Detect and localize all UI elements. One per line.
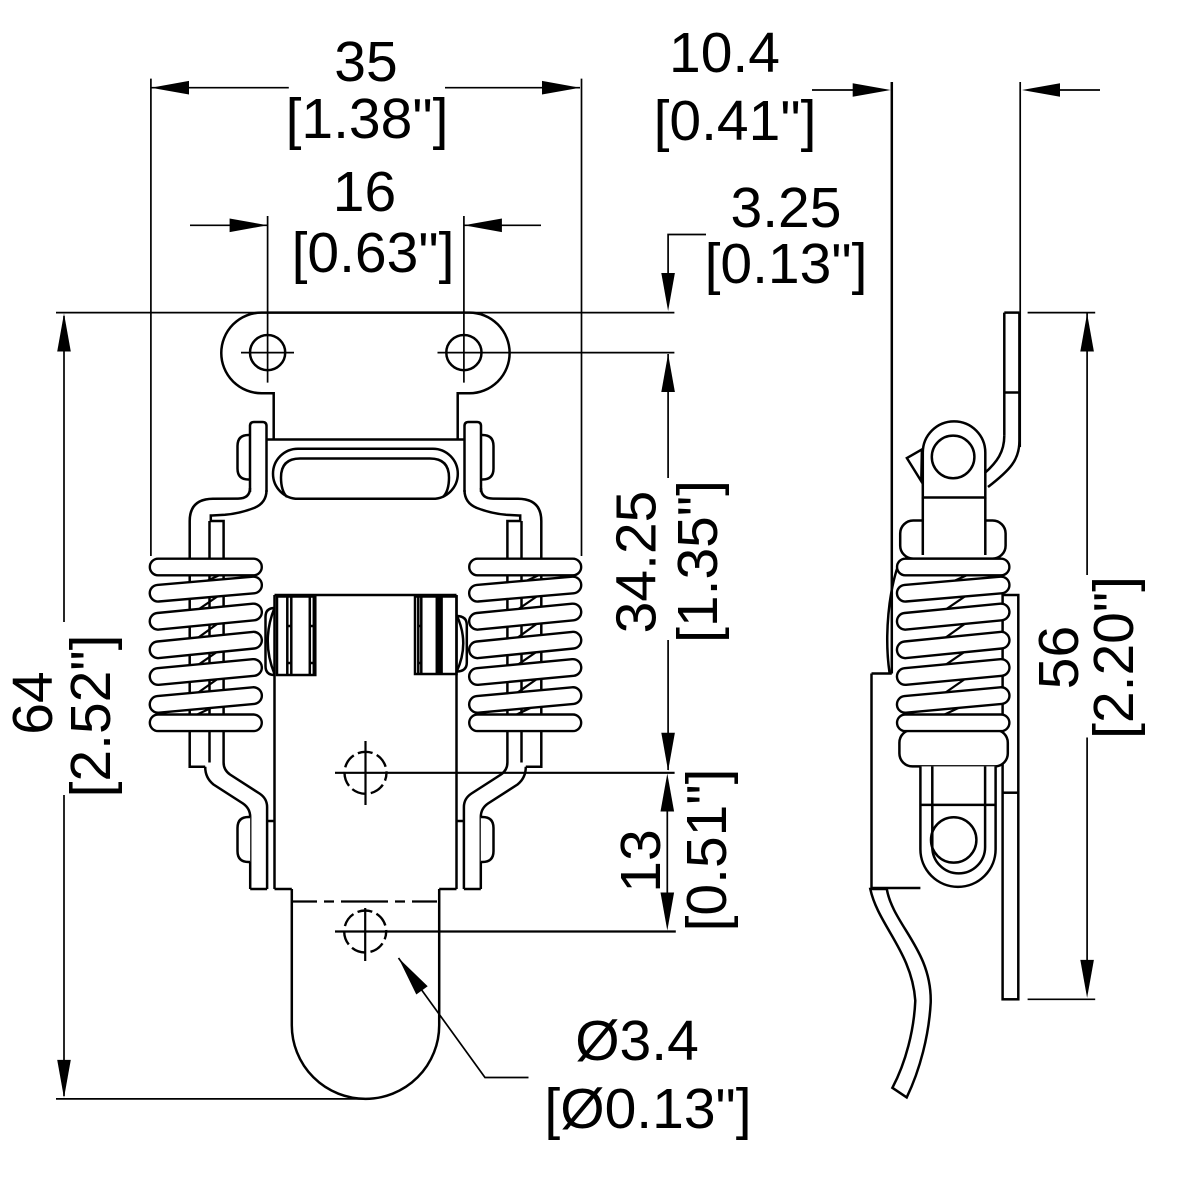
side: lever spring curve: [870, 889, 930, 1097]
plate hole left: [250, 335, 285, 370]
side: tongue: [920, 766, 995, 886]
64 arrow top: [57, 314, 71, 352]
svg-text:64: 64: [1, 671, 65, 734]
side: hook bend tick: [1004, 391, 1019, 394]
right arm middle fold line: [520, 521, 523, 763]
16 dim: [190, 224, 268, 226]
bail crossbar outer: [273, 449, 458, 499]
bail wire end tab lower-right: [481, 817, 494, 862]
side: tongue hole: [931, 817, 976, 862]
small tick left arm/body: [267, 820, 274, 823]
56 arrow bottom: [1080, 960, 1094, 998]
side: spring wire end curve: [887, 563, 899, 673]
right arm upper S-bend: [481, 488, 541, 767]
side: tongue bend line: [920, 804, 995, 807]
left claw tip cap: [250, 888, 267, 891]
side: hook transition curves: [985, 436, 1005, 473]
side: foot step: [872, 672, 892, 675]
svg-text:16: 16: [333, 160, 396, 224]
tongue outline: [292, 889, 439, 1099]
16 dim arrow left: [230, 219, 268, 233]
side: eye boss: [923, 421, 986, 497]
svg-text:[1.38"]: [1.38"]: [286, 87, 449, 151]
tongue hole crosshair: [364, 908, 366, 961]
13 dim line: [666, 806, 668, 898]
spring end hook right (D bulge): [457, 616, 467, 672]
svg-text:[1.35"]: [1.35"]: [666, 480, 730, 643]
left arm upper S-bend: [190, 488, 250, 767]
front view: top mounting plate: [221, 313, 509, 440]
right arm lower S-bend: [481, 767, 526, 889]
35 ext lines: [150, 79, 152, 556]
side: mounting plane: [891, 82, 894, 674]
35 dim arrow right: [542, 81, 580, 95]
tongue bend line (dashed): [292, 900, 439, 902]
crosshair left hole: [241, 352, 294, 354]
body center hole (dashed): [345, 752, 387, 794]
bail wire end tab lower-left: [238, 817, 251, 862]
svg-text:3.25: 3.25: [731, 176, 842, 240]
side spring: coil bars: [897, 559, 1009, 731]
svg-text:[Ø0.13"]: [Ø0.13"]: [544, 1077, 751, 1141]
64 dim line: [63, 316, 65, 622]
35 dim arrow left: [151, 81, 189, 95]
right claw tip cap: [464, 888, 481, 891]
side: spring top cup: [900, 521, 1005, 559]
side: plate bend tick: [1003, 791, 1019, 794]
body hole crosshair: [364, 741, 366, 805]
13 arrow top: [661, 774, 675, 812]
left spring: rear coil strokes: [184, 572, 227, 721]
bail top edge / body flange line: [267, 438, 465, 441]
right spring: rear coil strokes: [504, 572, 547, 721]
claw arm upper strip right: [465, 422, 482, 492]
64 bottom ext line: [56, 1098, 365, 1100]
svg-text:[2.20"]: [2.20"]: [1082, 576, 1146, 739]
svg-text:35: 35: [334, 30, 397, 94]
10.4 arrow left: [853, 83, 891, 97]
side: foot bottom: [872, 887, 921, 890]
56 dim line: [1086, 314, 1088, 576]
35 dim line: [151, 87, 289, 89]
spring end hook left (D bulge): [266, 608, 275, 675]
3.25 leader: [668, 235, 706, 281]
small tick right arm/body: [457, 820, 464, 823]
left arm middle fold line: [208, 521, 211, 763]
tongue hole (dashed): [344, 911, 386, 953]
16 dim arrow right: [464, 219, 502, 233]
svg-text:34.25: 34.25: [605, 491, 669, 634]
ext line: hole centerline to 3.25 dim: [438, 352, 675, 354]
svg-text:[0.51"]: [0.51"]: [675, 769, 739, 932]
svg-text:[0.41"]: [0.41"]: [654, 89, 817, 153]
side: back plate: [1003, 595, 1019, 999]
56 ext lines: [1028, 312, 1096, 314]
side: claw flap: [907, 449, 922, 481]
side spring: rear coil strokes: [931, 572, 975, 721]
svg-text:10.4: 10.4: [669, 21, 780, 85]
plate hole right: [446, 335, 481, 370]
bail wire end tab upper-right: [481, 435, 494, 480]
svg-text:[0.13"]: [0.13"]: [705, 232, 868, 296]
34.25 arrow top: [661, 354, 675, 392]
34.25 dim line: [667, 354, 669, 478]
34.25 arrow bottom: [661, 733, 675, 771]
leader to tongue hole: [399, 958, 529, 1078]
side: hook strip: [1003, 313, 1006, 436]
left slot rivet: [277, 597, 315, 676]
body step right: [439, 888, 456, 891]
latch body outline: [275, 594, 457, 597]
svg-text:Ø3.4: Ø3.4: [575, 1009, 699, 1073]
leader arrow at tongue hole: [399, 958, 428, 995]
svg-text:[2.52"]: [2.52"]: [59, 635, 123, 798]
crosshair right hole vertical: [463, 216, 465, 383]
svg-text:13: 13: [609, 829, 673, 892]
bail crossbar inner wire line: [281, 459, 449, 498]
side: spring bottom cup: [899, 730, 1007, 767]
right slot rivet: [415, 597, 457, 675]
left spring: coil bars: [150, 559, 262, 731]
right spring: coil bars: [469, 559, 581, 731]
56 arrow top: [1080, 314, 1094, 352]
body step left: [275, 888, 292, 891]
ext line: plate top (y=312.6): [56, 312, 674, 314]
side: eye hole: [932, 436, 975, 479]
10.4 dim: [812, 89, 855, 91]
13 arrow bottom: [661, 893, 675, 931]
claw arm upper strip left: [250, 422, 267, 492]
10.4 right ext line: [1019, 82, 1021, 447]
svg-text:[0.63"]: [0.63"]: [292, 221, 455, 285]
3.25 arrow: [661, 273, 675, 311]
left arm lower S-bend: [205, 767, 250, 889]
side: pivot link bar: [923, 498, 986, 556]
10.4 arrow right: [1022, 83, 1060, 97]
bail wire end tab upper-left: [238, 435, 251, 480]
64 arrow bottom: [57, 1060, 71, 1098]
